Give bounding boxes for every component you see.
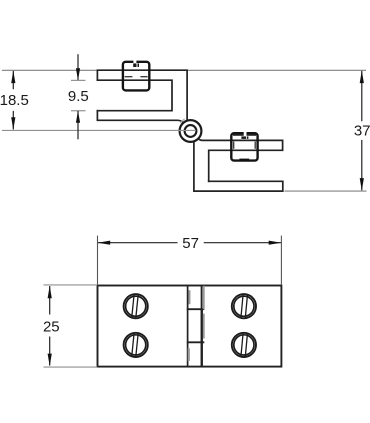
barrel gray seam left top (189, 290, 191, 304)
right leaf top plate (199, 139, 283, 182)
barrel separator 2 (187, 341, 205, 343)
barrel left line (187, 286, 189, 367)
screw head top-right (232, 294, 256, 318)
svg-text:37: 37 (354, 123, 370, 140)
right leaf bottom plate (194, 142, 283, 192)
extension line pin-center (y=130.4) (2, 129, 196, 131)
barrel right line (201, 286, 203, 367)
knuckle pin inner circle (185, 125, 197, 137)
svg-text:18.5: 18.5 (0, 92, 29, 109)
dimension 25 arrows (48, 286, 52, 299)
dimension 25 line (49, 286, 51, 315)
svg-text:25: 25 (43, 318, 60, 335)
svg-text:9.5: 9.5 (68, 88, 89, 105)
fillet shading tick (180, 119, 184, 123)
extension stub y=110.75 (71, 110, 86, 112)
dimension 9.5 line (77, 54, 79, 80)
knuckle outer circle (180, 120, 202, 142)
dimension 37 line (361, 71, 363, 121)
screw 2 top band (233, 134, 256, 136)
barrel gray seam left bottom (188, 348, 190, 361)
barrel gray seam right top (203, 286, 205, 310)
barrel right line lower thickening (201, 309, 203, 366)
dimension 37 arrows (360, 71, 364, 84)
screw head bottom-left (124, 333, 148, 357)
dimension 57 arrows (98, 241, 111, 245)
screw 2 slot notch (244, 131, 247, 136)
dimension 57 line (98, 242, 178, 244)
screw 1 body (123, 62, 149, 91)
screw 2 side dashes (233, 142, 235, 149)
dimension 18.5 arrows (11, 71, 15, 84)
left leaf top plate (97, 70, 187, 119)
extension line top (y=70.3 full width) (2, 69, 366, 71)
barrel gray seam right middle (203, 314, 205, 339)
screw 2 body (231, 133, 257, 160)
screw head bottom-right (232, 333, 256, 357)
screw head top-left (124, 294, 148, 318)
dimension 25 extension lines (44, 284, 98, 286)
dimension 57 extension lines (97, 236, 99, 286)
barrel separator 1 (187, 308, 205, 310)
svg-text:57: 57 (182, 235, 199, 252)
dimension 18.5 line (12, 71, 14, 89)
extension line over knuckle to pin center (178, 129, 196, 131)
dimension 9.5 arrows (76, 68, 80, 80)
screw 1 inner dashes (125, 76, 133, 78)
bottom view hinge plate rectangle (98, 286, 282, 367)
extension stub y=80.35 (71, 79, 86, 81)
left leaf bottom plate (97, 111, 183, 123)
extension line bottom right (y=191.1) (285, 190, 367, 192)
screw 1 slot notch (133, 60, 136, 65)
screw 2 bottom slot bar (239, 159, 249, 161)
